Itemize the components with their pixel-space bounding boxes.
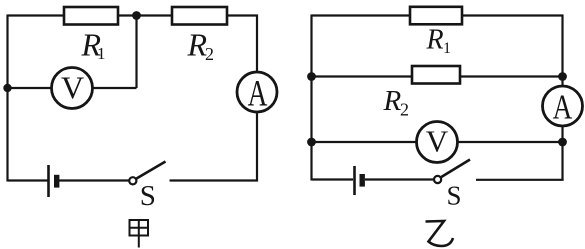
wire: R2 branch left: [312, 75, 414, 77]
node: junction dot top (甲): [132, 11, 141, 20]
battery (乙) long plate: [353, 166, 356, 195]
label R1 (乙): [426, 25, 452, 58]
node: junction dot on left rail (甲): [3, 84, 11, 92]
wire: voltmeter branch right (乙): [458, 141, 563, 143]
svg-text:V: V: [61, 70, 84, 106]
node: junction dot right upper (乙): [558, 72, 567, 81]
wire: R2 to top-right corner and down to ammeter: [227, 16, 257, 73]
ammeter A (乙): [543, 86, 583, 126]
voltmeter V (甲): [52, 68, 93, 109]
switch S (乙) blade: [441, 160, 470, 178]
wire: voltmeter branch right: [93, 87, 137, 89]
label R2 (乙): [383, 85, 410, 120]
resistor R1 (甲): [64, 7, 118, 25]
svg-text:1: 1: [97, 44, 106, 63]
ammeter A (甲): [237, 72, 277, 112]
wire: 乙 top rail left segment: [312, 14, 412, 16]
switch S (甲) pivot: [129, 177, 136, 184]
svg-text:S: S: [446, 181, 461, 211]
wire: R1 to node: [118, 14, 137, 16]
label R2 (甲): [187, 27, 215, 65]
wire: voltmeter branch left: [8, 87, 53, 89]
resistor R2 (乙): [412, 66, 460, 84]
label 乙: [426, 221, 454, 246]
node: junction dot left upper (乙): [307, 72, 316, 81]
switch S (甲) blade: [137, 162, 166, 179]
wire: 乙 right rail lower: [561, 126, 563, 180]
wire: bottom-left segment: [8, 179, 48, 181]
wire: battery to switch: [59, 179, 129, 181]
label R1 (甲): [81, 27, 106, 64]
svg-text:A: A: [248, 74, 268, 115]
wire: 乙 left rail: [310, 15, 312, 181]
svg-text:2: 2: [205, 44, 214, 64]
wire: switch to right corner (乙): [476, 179, 564, 181]
wire: 甲 left rail: [6, 15, 8, 182]
voltmeter V (乙): [417, 122, 458, 163]
wire: ammeter down to corner, bottom rail right segment: [170, 112, 258, 181]
resistor R2 (甲): [172, 7, 227, 25]
node: junction dot right lower (乙): [558, 138, 567, 147]
wire: node to R2: [137, 14, 173, 16]
wire: 乙 right rail upper: [561, 15, 563, 87]
node: junction dot left lower (乙): [307, 138, 316, 147]
wire: voltmeter branch left (乙): [312, 141, 418, 143]
svg-text:2: 2: [400, 100, 409, 120]
battery (甲) short thick plate: [54, 175, 59, 188]
svg-text:V: V: [426, 124, 449, 159]
wire: voltmeter branch riser to top node: [135, 16, 137, 89]
svg-text:1: 1: [443, 40, 451, 57]
switch S (乙) pivot: [434, 176, 441, 183]
svg-text:S: S: [140, 180, 156, 212]
wire: 乙 top rail right segment: [462, 14, 563, 16]
wire: 甲 top rail left segment: [8, 14, 67, 16]
wire: battery to switch (乙): [365, 178, 434, 180]
wire: 乙 bottom rail left segment: [312, 178, 354, 180]
svg-text:R: R: [426, 25, 444, 56]
label 甲: [130, 220, 149, 248]
resistor R1 (乙): [410, 7, 462, 25]
svg-text:R: R: [383, 85, 402, 117]
battery (甲) long plate: [47, 165, 50, 197]
wire: R2 branch right: [460, 75, 563, 77]
battery (乙) short thick plate: [360, 174, 365, 187]
svg-text:A: A: [553, 87, 573, 126]
